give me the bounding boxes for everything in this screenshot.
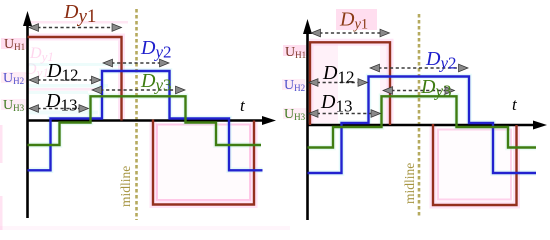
ghost cyan halo under blue waveform U_H2 left xyxy=(28,71,263,170)
pink highlight behind label U_H3 right xyxy=(283,108,306,119)
horizontal t-axis (left) xyxy=(28,116,277,125)
ghost pink halo under red waveform U_H1 right xyxy=(310,42,517,205)
waveform U_H3 (green) right xyxy=(308,96,537,147)
ghost cyan halo under blue waveform U_H2 right xyxy=(308,77,537,174)
dimension arrow D_y3 right xyxy=(383,87,455,95)
pink highlight behind label U_H2 right xyxy=(282,79,305,90)
ghost pink wash inside red positive pulse right xyxy=(312,44,338,123)
waveform U_H1 (dark red) left xyxy=(28,37,255,205)
ghost pink halo under red waveform U_H1 left xyxy=(28,37,255,205)
dimension arrow D_y3 left xyxy=(92,86,185,94)
pink highlight behind label D_y1 right xyxy=(336,9,377,30)
waveform U_H1 (dark red) right xyxy=(310,42,517,205)
svg-text:midline: midline xyxy=(118,166,133,207)
dimension arrow D_y2 left xyxy=(103,59,169,67)
svg-text:t: t xyxy=(512,95,518,114)
horizontal t-axis (right) xyxy=(308,121,548,130)
midline (left) dashed vertical xyxy=(135,9,138,220)
dimension arrow D_13 left xyxy=(29,105,89,113)
waveform U_H2 (blue) left xyxy=(28,71,263,170)
ghost pink inner outline of red negative pulse right xyxy=(438,130,511,200)
svg-text:Dy3: Dy3 xyxy=(420,76,452,101)
vertical axis (right) xyxy=(303,19,312,220)
dimension arrow D_12 right xyxy=(309,79,368,87)
dimension arrow D_13 right xyxy=(309,110,381,118)
svg-text:midline: midline xyxy=(402,163,417,204)
waveform U_H3 (green) left xyxy=(28,96,262,145)
ghost pink streaks left panel xyxy=(28,21,128,24)
pink highlight behind label U_H2 left xyxy=(1,72,26,83)
ghost pink strip bottom left panel xyxy=(0,226,290,230)
dimension arrow D_y1 right xyxy=(311,29,390,37)
pink highlight behind label U_H3 left xyxy=(1,99,26,110)
svg-text:Dy2: Dy2 xyxy=(140,37,172,62)
pink highlight behind label U_H1 right xyxy=(283,45,306,56)
ghost pink left edge strips xyxy=(0,125,3,163)
dimension arrow D_12 left xyxy=(29,76,101,84)
ghost cyan halo under green waveform U_H3 left xyxy=(28,96,262,145)
waveform U_H2 (blue) right xyxy=(308,77,537,174)
ghost cyan streaks left panel xyxy=(28,63,133,66)
vertical axis (left) xyxy=(23,11,32,218)
ghost cyan halo under green waveform U_H3 right xyxy=(308,96,537,147)
svg-text:Dy2: Dy2 xyxy=(425,48,457,73)
pink highlight behind label U_H1 left xyxy=(1,38,26,49)
midline (right) dashed vertical xyxy=(418,14,421,218)
svg-text:t: t xyxy=(240,96,246,115)
dimension arrow D_y2 right xyxy=(370,64,468,72)
ghost pink inner outline of red negative pulse left xyxy=(157,125,250,201)
svg-text:D12: D12 xyxy=(322,62,354,87)
dimension arrow D_y1 left xyxy=(29,24,122,32)
